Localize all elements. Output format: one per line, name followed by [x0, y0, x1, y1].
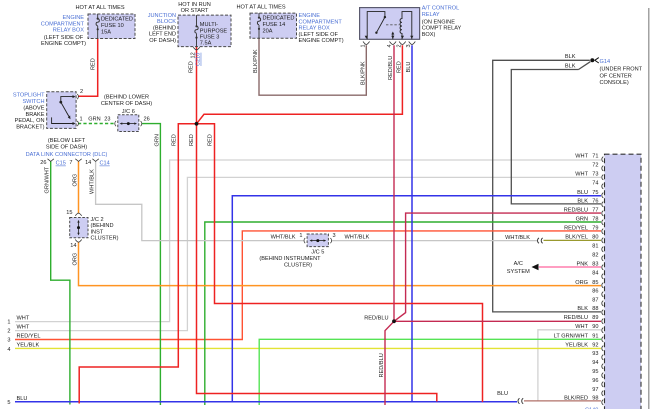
svg-text:DEDICATED: DEDICATED [101, 17, 133, 23]
svg-text:3: 3 [333, 233, 336, 239]
wire BLK/PNK fuse14 to relay pin1 [259, 38, 366, 95]
svg-text:ENGINE COMPT): ENGINE COMPT) [299, 38, 344, 44]
svg-text:85: 85 [592, 280, 598, 286]
junction dot RED/BLU [392, 319, 396, 323]
svg-text:BLU: BLU [17, 396, 28, 402]
svg-text:BLU: BLU [406, 62, 412, 73]
wire GRN pin78 [205, 222, 601, 405]
svg-text:83: 83 [592, 261, 598, 267]
svg-text:14: 14 [85, 160, 91, 166]
svg-text:LEFT END: LEFT END [149, 32, 176, 38]
wire RED/BLU junction to pin89 [394, 320, 601, 322]
fuse 14 symbol [257, 13, 260, 38]
svg-text:ENGINE: ENGINE [299, 13, 321, 19]
svg-text:12: 12 [190, 52, 196, 58]
svg-text:(UNDER FRONT: (UNDER FRONT [600, 67, 643, 73]
svg-text:14: 14 [70, 243, 76, 249]
svg-text:DATA LINK CONNECTOR (DLC): DATA LINK CONNECTOR (DLC) [26, 152, 108, 158]
relay U1: A/T control relay box [360, 8, 420, 40]
svg-text:86: 86 [592, 288, 598, 294]
svg-text:(BEHIND LOWER: (BEHIND LOWER [104, 94, 149, 100]
ground G14 symbol [590, 58, 594, 62]
stoplight switch symbol [61, 97, 74, 101]
svg-text:(LEFT SIDE OF: (LEFT SIDE OF [299, 32, 339, 38]
svg-text:89: 89 [592, 315, 598, 321]
svg-text:BLK: BLK [565, 63, 576, 69]
svg-text:75: 75 [592, 190, 598, 196]
svg-text:76: 76 [592, 198, 598, 204]
relay switch contact [367, 12, 385, 40]
svg-text:15A: 15A [101, 30, 111, 36]
svg-text:OF DASH): OF DASH) [149, 38, 176, 44]
wire RED/BLU relay pin4 to junction dot [393, 45, 395, 321]
wire RED/YEL pin3 to pin79 [15, 231, 601, 340]
wire RED fuse10 to stoplight [78, 39, 98, 97]
svg-text:91: 91 [592, 333, 598, 339]
svg-text:WHT: WHT [575, 324, 588, 330]
svg-text:RED/YEL: RED/YEL [17, 334, 41, 340]
svg-text:RED/BLU: RED/BLU [564, 315, 588, 321]
wire BLK/RED splice to pin98 [524, 400, 601, 402]
svg-text:20A: 20A [263, 29, 273, 35]
svg-text:(BEHIND: (BEHIND [153, 25, 176, 31]
svg-text:94: 94 [592, 360, 598, 366]
splice symbol BLU-BLK/RED [518, 398, 523, 403]
svg-text:BLK: BLK [577, 198, 588, 204]
svg-text:BLK/PNK: BLK/PNK [360, 61, 366, 85]
wire RED/BLU pin77 down to junction dot [394, 213, 601, 321]
wire GRN/WHT from DLC pin26 [51, 162, 70, 405]
wire PNK pin83 to A/C system [539, 266, 601, 268]
svg-text:WHT: WHT [575, 154, 588, 160]
svg-text:HOT AT ALL TIMES: HOT AT ALL TIMES [75, 5, 124, 11]
svg-text:COMPARTMENT: COMPARTMENT [299, 19, 343, 25]
svg-text:RED/YEL: RED/YEL [564, 225, 588, 231]
svg-text:LT GRN/WHT: LT GRN/WHT [554, 333, 589, 339]
svg-text:GRN/WHT: GRN/WHT [45, 166, 51, 193]
svg-text:JUNCTION: JUNCTION [148, 13, 176, 19]
svg-text:(BEHIND: (BEHIND [91, 223, 114, 229]
svg-text:15: 15 [66, 210, 72, 216]
svg-text:(BELOW LEFT: (BELOW LEFT [48, 138, 86, 144]
svg-text:CENTER OF DASH): CENTER OF DASH) [101, 101, 152, 107]
svg-text:96: 96 [592, 378, 598, 384]
svg-text:ORG: ORG [575, 280, 588, 286]
svg-text:BLOCK: BLOCK [157, 19, 176, 25]
svg-text:SIDE OF DASH): SIDE OF DASH) [46, 145, 87, 151]
svg-text:A/C: A/C [514, 261, 523, 267]
svg-text:SYSTEM: SYSTEM [507, 269, 530, 275]
svg-text:PEDAL, ON: PEDAL, ON [15, 118, 45, 124]
svg-text:RED: RED [188, 61, 194, 73]
svg-text:WHT/BLK: WHT/BLK [271, 235, 296, 241]
svg-text:YEL/BLK: YEL/BLK [17, 343, 40, 349]
svg-text:87: 87 [592, 297, 598, 303]
svg-text:RED/BLU: RED/BLU [564, 207, 588, 213]
svg-text:1: 1 [80, 117, 83, 123]
svg-text:92: 92 [592, 342, 598, 348]
svg-text:BLU: BLU [577, 190, 588, 196]
svg-text:J/C 5: J/C 5 [311, 250, 324, 256]
svg-text:C210: C210 [196, 53, 202, 66]
svg-text:(ON ENGINE: (ON ENGINE [422, 19, 456, 25]
svg-text:79: 79 [592, 225, 598, 231]
svg-text:YEL/BLK: YEL/BLK [565, 342, 588, 348]
wire BLK G14 right leg to pin76 [511, 62, 601, 204]
svg-text:HOT IN RUN: HOT IN RUN [178, 2, 211, 8]
svg-text:4: 4 [387, 44, 393, 47]
svg-text:BRAKE: BRAKE [26, 112, 45, 118]
wire GRN dashed stoplight to J/C6 [78, 123, 115, 125]
wire BLU bottom pin5 [15, 401, 517, 403]
wire BLK/YEL splice to pin80 [544, 239, 602, 241]
svg-text:93: 93 [592, 351, 598, 357]
svg-text:90: 90 [592, 324, 598, 330]
svg-text:PNK: PNK [576, 261, 588, 267]
wire WHT pin2 to pin73 [15, 177, 601, 330]
fuse box F10: engine compartment relay box [88, 14, 135, 39]
svg-text:RED: RED [172, 134, 178, 146]
svg-text:RELAY BOX: RELAY BOX [299, 26, 330, 32]
svg-text:97: 97 [592, 387, 598, 393]
svg-text:74: 74 [592, 181, 598, 187]
svg-text:BLK/YEL: BLK/YEL [565, 235, 588, 241]
svg-text:3: 3 [7, 338, 10, 344]
switch pin arcs [77, 94, 78, 126]
svg-text:BLK/PNK: BLK/PNK [253, 49, 259, 73]
svg-text:CONSOLE): CONSOLE) [600, 80, 629, 86]
wire GRN from J/C6 [142, 124, 161, 405]
svg-text:GRN: GRN [88, 117, 100, 123]
svg-text:FUSE 10: FUSE 10 [101, 23, 124, 29]
svg-text:MULTI-: MULTI- [200, 22, 218, 28]
ECU connector box (right side, dashed) [605, 154, 642, 409]
ECU pin arcs 71-98 [602, 157, 604, 405]
svg-text:COMPARTMENT: COMPARTMENT [41, 21, 85, 27]
svg-text:(ABOVE: (ABOVE [23, 106, 44, 112]
svg-text:WHT: WHT [17, 325, 30, 331]
svg-text:INST: INST [91, 229, 104, 235]
svg-text:STOPLIGHT: STOPLIGHT [13, 93, 45, 99]
svg-text:OF CENTER: OF CENTER [600, 73, 632, 79]
fuse 3 symbol [195, 15, 198, 46]
svg-text:WHT/BLK: WHT/BLK [89, 169, 95, 194]
svg-text:BLK/RED: BLK/RED [564, 395, 588, 401]
svg-text:ORG: ORG [72, 253, 78, 266]
wire BLU relay pin3 [411, 45, 413, 402]
junction dot RED [195, 122, 199, 126]
svg-text:J/C 2: J/C 2 [91, 217, 104, 223]
svg-text:26: 26 [40, 160, 46, 166]
svg-text:7.5A: 7.5A [200, 40, 212, 46]
svg-text:73: 73 [592, 172, 598, 178]
svg-text:RED: RED [396, 61, 402, 73]
svg-text:71: 71 [592, 154, 598, 160]
svg-text:1: 1 [361, 44, 367, 47]
connector fork below fuse 3 [193, 47, 199, 50]
svg-text:78: 78 [592, 216, 598, 222]
wire RED junction to relay pin2 [197, 45, 403, 124]
svg-text:G14: G14 [600, 59, 611, 65]
svg-text:BLK: BLK [565, 54, 576, 60]
svg-text:ENGINE COMPT): ENGINE COMPT) [41, 41, 86, 47]
fuse 10 symbol [96, 14, 99, 39]
wire BLK G14 left leg to pin88 [493, 60, 601, 312]
svg-text:26: 26 [144, 117, 150, 123]
svg-text:BLK: BLK [577, 306, 588, 312]
svg-text:RED/BLU: RED/BLU [379, 353, 385, 377]
svg-text:DEDICATED: DEDICATED [263, 16, 295, 22]
stoplight switch box [47, 92, 76, 129]
svg-text:GRN: GRN [576, 216, 588, 222]
svg-text:SWITCH: SWITCH [22, 99, 44, 105]
svg-text:2: 2 [7, 328, 10, 334]
J/C2 top/bottom forks [75, 213, 81, 216]
svg-text:WHT: WHT [575, 172, 588, 178]
svg-text:RED/BLU: RED/BLU [388, 56, 394, 80]
relay coil [400, 12, 412, 40]
svg-text:RED: RED [189, 134, 195, 146]
wire LT GRN/WHT pin91 [259, 339, 601, 405]
svg-text:4: 4 [7, 347, 10, 353]
svg-text:1: 1 [7, 319, 10, 325]
svg-text:88: 88 [592, 306, 598, 312]
relay pin down-arrows [365, 36, 414, 39]
wire WHT/BLK J/C5 to splice [332, 240, 538, 242]
wire WHT pin90 loop to splice [538, 330, 601, 401]
svg-text:WHT/BLK: WHT/BLK [345, 235, 370, 241]
svg-text:5: 5 [7, 400, 10, 406]
J/C 2 box [70, 218, 88, 238]
splice symbol WHT/BLK-BLK/YEL [538, 238, 543, 243]
svg-text:J/C 6: J/C 6 [122, 109, 135, 115]
svg-text:FUSE 14: FUSE 14 [263, 22, 286, 28]
svg-text:BOX): BOX) [422, 32, 436, 38]
outer module edge line (right image edge) [648, 8, 650, 409]
relay pin connector forks [363, 42, 370, 45]
wire RED fuse3 down to junction [196, 47, 198, 124]
svg-text:77: 77 [592, 207, 598, 213]
svg-text:PURPOSE: PURPOSE [200, 28, 228, 34]
svg-text:RED: RED [207, 134, 213, 146]
wire YEL/BLK pin4 to pin92 [15, 347, 601, 349]
svg-text:2: 2 [80, 89, 83, 95]
relay mechanical link dashed [386, 24, 400, 26]
J/C 6 box [118, 115, 139, 132]
DLC connector forks [48, 159, 99, 162]
svg-text:OR START: OR START [181, 8, 209, 14]
svg-text:82: 82 [592, 252, 598, 258]
svg-text:HOT AT ALL TIMES: HOT AT ALL TIMES [236, 5, 285, 11]
wire RED center continue to bottom [197, 124, 437, 402]
arrow to A/C SYSTEM [532, 264, 539, 270]
wire WHT pin1 to pin71 [15, 160, 601, 322]
svg-text:GRN: GRN [154, 134, 160, 146]
wire WHT/BLK from DLC pin14 to J/C5 [96, 162, 304, 241]
svg-text:72: 72 [592, 163, 598, 169]
svg-text:CLUSTER): CLUSTER) [91, 236, 119, 242]
svg-text:C15: C15 [56, 161, 66, 167]
svg-text:CLUSTER): CLUSTER) [284, 262, 312, 268]
svg-text:ORG: ORG [72, 174, 78, 187]
wire ORG from DLC pin7 through J/C2 to pin85 [78, 162, 80, 214]
svg-text:RED/BLU: RED/BLU [364, 316, 388, 322]
svg-text:81: 81 [592, 243, 598, 249]
svg-text:ENGINE: ENGINE [63, 15, 85, 21]
svg-text:98: 98 [592, 395, 598, 401]
svg-text:WHT: WHT [17, 316, 30, 322]
svg-text:23: 23 [104, 117, 110, 123]
wire BLU riser to pin75 [232, 196, 601, 402]
wire RED/BLU junction down to bottom [385, 321, 394, 405]
fuse box F3: junction block [178, 15, 231, 46]
svg-text:(BEHIND INSTRUMENT: (BEHIND INSTRUMENT [259, 256, 321, 262]
svg-text:2: 2 [397, 44, 403, 47]
svg-text:BLU: BLU [497, 391, 508, 397]
wire RED branch left [79, 124, 196, 404]
fuse box F14: engine compartment relay box [250, 13, 297, 38]
svg-text:COMPT RELAY: COMPT RELAY [422, 26, 462, 32]
svg-text:C14: C14 [100, 161, 110, 167]
svg-text:RELAY BOX: RELAY BOX [53, 28, 84, 34]
svg-text:80: 80 [592, 235, 598, 241]
relay pin4 contact with arrow [392, 34, 394, 40]
svg-text:7: 7 [69, 160, 72, 166]
wire RED branch right [197, 124, 483, 402]
svg-text:RED: RED [91, 58, 97, 70]
svg-text:A/T CONTROL: A/T CONTROL [422, 6, 460, 12]
svg-text:95: 95 [592, 369, 598, 375]
svg-text:RELAY: RELAY [422, 12, 440, 18]
svg-text:84: 84 [592, 270, 598, 276]
svg-text:1: 1 [299, 233, 302, 239]
svg-text:BRACKET): BRACKET) [16, 124, 44, 130]
svg-text:WHT/BLK: WHT/BLK [505, 235, 530, 241]
J/C 5 box [307, 234, 328, 247]
svg-text:3: 3 [406, 44, 412, 47]
